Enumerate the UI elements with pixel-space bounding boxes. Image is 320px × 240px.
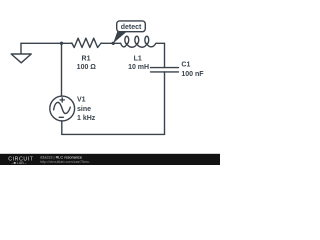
svg-text:L1: L1 — [134, 56, 142, 63]
svg-text:detect: detect — [121, 24, 142, 31]
V1 plus — [60, 98, 64, 102]
inductor L1 — [121, 36, 165, 47]
svg-text:sine: sine — [77, 106, 91, 113]
wire L1 to C1 — [164, 43, 166, 67]
svg-text:V1: V1 — [77, 96, 86, 103]
footer bar — [0, 154, 220, 165]
svg-text:–■ LAB –: –■ LAB – — [12, 161, 28, 165]
svg-text:C1: C1 — [181, 62, 190, 69]
resistor R1 — [72, 38, 101, 47]
V1 minus — [59, 116, 63, 118]
wire C1 down — [164, 72, 166, 134]
svg-text:1 kHz: 1 kHz — [77, 115, 96, 122]
ground — [11, 43, 31, 63]
wire ground to node A — [21, 42, 72, 44]
svg-text:100 nF: 100 nF — [181, 71, 204, 78]
V1 sine wave — [54, 102, 71, 113]
svg-text:100 Ω: 100 Ω — [77, 64, 97, 71]
detect box — [117, 21, 146, 32]
detect callout pointer — [113, 31, 127, 43]
svg-text:R1: R1 — [82, 56, 91, 63]
wire V1 to bottom — [61, 121, 63, 134]
svg-text:http://circuitlab.com/cae75mu: http://circuitlab.com/cae75mu — [40, 160, 89, 164]
node B junction dot — [112, 42, 115, 45]
wire node A to V1 — [61, 43, 63, 96]
source V1 — [50, 96, 75, 121]
svg-text:10 mH: 10 mH — [128, 64, 149, 71]
node A junction dot — [60, 42, 63, 45]
capacitor C1 — [151, 68, 179, 72]
wire R1 to L1 — [101, 42, 120, 44]
bottom wire — [62, 133, 165, 135]
